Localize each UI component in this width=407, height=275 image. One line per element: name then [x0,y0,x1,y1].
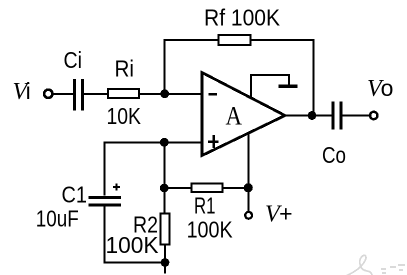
wire output [285,115,332,117]
inverting input minus sign [208,93,217,96]
node output junction [308,111,317,120]
wire feedback riser [165,40,218,94]
capacitor Ci [75,79,83,110]
node junction at inverting input [160,89,169,98]
node junction R1 R2 [160,184,169,193]
resistor Rf [219,35,251,45]
wire to V+ terminal [247,188,249,211]
C1 polarity plus [113,184,120,191]
svg-text:C1: C1 [62,182,88,208]
svg-text:Ri: Ri [115,56,135,82]
node V+ junction [244,183,253,192]
svg-text:Co: Co [322,142,346,168]
resistor R1 [192,183,223,192]
svg-text:100K: 100K [187,217,234,243]
wire Vi to Ci [53,93,74,95]
wire junction to R1 [164,187,191,189]
node junction at non-inverting input [160,138,169,147]
svg-text:Ci: Ci [64,47,83,73]
terminal Vi [44,90,52,98]
wire op-amp V+ pin stub [247,134,249,189]
capacitor Co [333,102,341,130]
wire C1 to bottom rail [105,206,166,262]
svg-text:10K: 10K [107,103,142,129]
svg-text:V+: V+ [265,201,293,228]
node bottom junction [161,258,170,267]
wire non-inverting input [105,141,203,143]
resistor R2 [161,213,170,244]
wire Ci to Ri [84,93,108,95]
wire Ri to inverting input [140,93,202,95]
svg-text:Vi: Vi [13,78,31,105]
wire down to C1 [104,141,106,195]
op-amp U1 triangle [202,73,285,156]
wire bottom junction stub down [164,263,166,274]
non-inverting input plus sign [208,135,219,148]
wire R2 to bottom junction [164,244,166,262]
ground [278,84,297,87]
svg-text:10uF: 10uF [36,206,79,232]
capacitor C1 [89,198,122,206]
wire op-amp ground stub [251,75,289,98]
watermark [336,255,373,275]
wire R2 branch riser [163,142,165,213]
resistor Ri [108,89,139,98]
wire Rf to output node [251,40,314,112]
svg-text:R1: R1 [194,193,216,219]
svg-text:A: A [226,102,243,131]
svg-text:Vo: Vo [367,75,393,102]
terminal Vo [370,112,377,119]
wire R1 to V+ node [223,187,249,189]
wire Co to Vo [343,115,370,117]
svg-text:Rf 100K: Rf 100K [204,5,281,31]
terminal V+ [245,212,252,219]
svg-text:100K: 100K [106,232,160,258]
